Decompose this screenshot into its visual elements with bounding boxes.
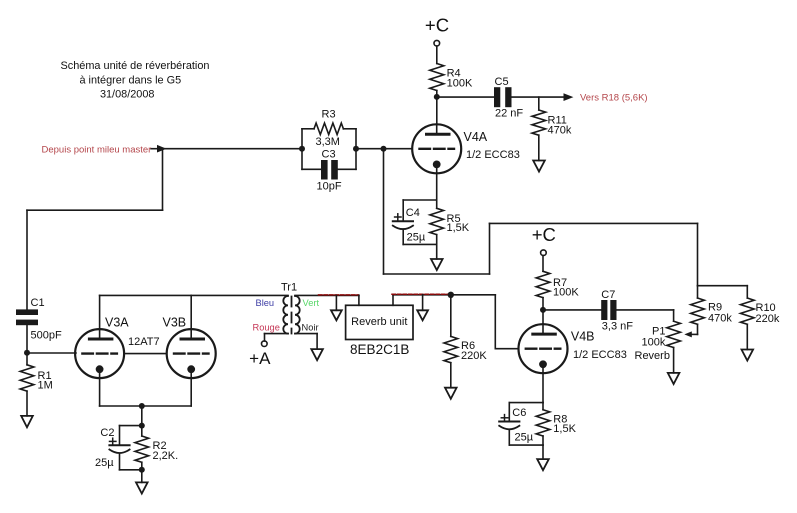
svg-text:100k: 100k — [642, 336, 666, 348]
triode V3B (12AT7) — [163, 315, 216, 378]
svg-text:V4B: V4B — [571, 329, 595, 343]
potentiometer P1 100k Reverb — [635, 321, 698, 373]
svg-text:V3A: V3A — [105, 315, 129, 329]
wire cathode network to ground — [436, 244, 438, 259]
node V4A grid / feedback tap — [381, 146, 387, 152]
svg-text:V3B: V3B — [163, 315, 187, 329]
wire plate node to C5 — [437, 96, 494, 98]
wire to ground — [141, 470, 143, 483]
svg-text:8EB2C1B: 8EB2C1B — [350, 342, 409, 357]
triode V4B 1/2 ECC83 — [519, 324, 627, 373]
resistor R8 1,5K — [536, 403, 576, 446]
wire primary bottom to +A terminal — [265, 333, 289, 335]
wire feedback down to divider — [697, 223, 699, 285]
svg-text:1,5K: 1,5K — [447, 222, 470, 234]
svg-text:25µ: 25µ — [515, 432, 534, 444]
wire down to C1 — [26, 210, 28, 309]
wire left horizontal to C1 column — [27, 209, 163, 211]
wire feedback bottom horizontal — [384, 273, 490, 275]
wire to V3A grid — [27, 352, 76, 354]
svg-text:Reverb: Reverb — [635, 350, 670, 362]
resistor R9 470k — [691, 286, 733, 335]
svg-text:2,2K.: 2,2K. — [153, 450, 179, 462]
svg-text:3,3 nF: 3,3 nF — [602, 321, 633, 333]
wire reverb output cable — [393, 294, 451, 296]
wire shield stub left — [335, 295, 337, 310]
wire junction to V4B grid — [451, 294, 496, 296]
ground below R5/C4 — [431, 259, 443, 270]
wire red dashed input cable — [319, 294, 359, 296]
capacitor C3 10pF — [302, 149, 356, 193]
node reverb output junction — [448, 292, 454, 298]
ground below P1 — [668, 373, 680, 384]
ground shield left — [331, 310, 342, 320]
svg-text:Tr1: Tr1 — [281, 281, 297, 293]
svg-text:Vers R18 (5,6K): Vers R18 (5,6K) — [580, 93, 648, 104]
svg-text:22 nF: 22 nF — [495, 108, 523, 120]
svg-text:Rouge: Rouge — [253, 322, 280, 332]
title block — [61, 60, 210, 101]
resistor R11 470k — [532, 97, 572, 160]
ground below R11 — [533, 161, 545, 172]
wire cathode rail — [100, 405, 192, 407]
svg-text:100K: 100K — [553, 287, 579, 299]
wire C7 to P1 — [617, 309, 674, 311]
reverb tank box 8EB2C1B — [346, 295, 413, 357]
power +C supply (V4A) — [425, 14, 449, 46]
wire feedback up — [489, 223, 491, 274]
wire divider rail — [698, 285, 748, 287]
wire V4B plate lead — [542, 310, 544, 324]
wire V3B plate lead up — [190, 295, 192, 329]
svg-text:25µ: 25µ — [407, 231, 426, 243]
svg-text:Reverb unit: Reverb unit — [351, 316, 407, 328]
wire feedback top horizontal — [490, 222, 698, 224]
resistor R2 2,2K — [135, 426, 178, 470]
ground below R6 — [445, 388, 457, 399]
svg-text:C1: C1 — [31, 297, 45, 309]
svg-text:Depuis point mileu master: Depuis point mileu master — [42, 144, 152, 155]
node V4B plate — [540, 307, 546, 313]
svg-text:3,3M: 3,3M — [316, 136, 340, 148]
wire shield stub right — [422, 295, 424, 311]
resistor R6 220K — [444, 295, 487, 388]
wire V4A cathode lead — [436, 173, 438, 200]
wire V3A plate lead up — [99, 295, 101, 329]
wire input to R3/C3 left node — [163, 148, 302, 150]
node R3 right — [353, 146, 359, 152]
svg-text:+C: +C — [532, 224, 556, 245]
svg-text:Noir: Noir — [302, 322, 319, 332]
resistor R10 220k — [741, 286, 780, 350]
wire plate to C7 — [543, 309, 601, 311]
capacitor C4 25u electrolytic — [393, 200, 437, 244]
svg-text:100K: 100K — [447, 78, 473, 90]
svg-text:500pF: 500pF — [31, 329, 62, 341]
wire grid link V3A-V3B — [124, 353, 167, 355]
svg-text:12AT7: 12AT7 — [128, 336, 160, 348]
capacitor C5 22nF — [494, 76, 523, 120]
svg-text:Schéma unité de réverbération: Schéma unité de réverbération — [61, 60, 210, 72]
resistor R4 100K — [430, 46, 473, 97]
svg-text:C3: C3 — [322, 149, 336, 161]
svg-text:10pF: 10pF — [317, 180, 342, 192]
svg-text:R3: R3 — [322, 108, 336, 120]
wire V4A plate lead — [436, 97, 438, 124]
svg-text:31/08/2008: 31/08/2008 — [100, 89, 155, 101]
wire to ground — [542, 445, 544, 459]
node input arrow (Depuis point mileu master) — [42, 144, 167, 155]
svg-text:470k: 470k — [548, 124, 572, 136]
node cathode rail center — [139, 403, 145, 409]
capacitor C6 25u electrolytic — [499, 403, 543, 446]
svg-text:220K: 220K — [461, 350, 487, 362]
wire red dashed output cable — [392, 293, 450, 295]
wire V4B cathode lead — [542, 373, 544, 402]
wire input junction down — [162, 149, 164, 211]
ground secondary (Noir) — [311, 349, 323, 360]
wire C1 to grid node — [26, 325, 28, 353]
wire down to bias network — [141, 406, 143, 426]
svg-text:220k: 220k — [756, 313, 780, 325]
wire plate rail to transformer — [100, 294, 288, 296]
wire secondary bottom — [295, 333, 317, 335]
triode V3A (12AT7) — [75, 315, 129, 378]
svg-text:C4: C4 — [406, 207, 420, 219]
svg-text:C7: C7 — [601, 289, 615, 301]
node +A terminal — [249, 341, 271, 368]
resistor R1 1M — [20, 353, 53, 416]
svg-text:Bleu: Bleu — [256, 298, 275, 308]
ground below R10 — [742, 350, 754, 361]
ground below R8/C6 — [537, 459, 549, 470]
capacitor C1 500pF — [16, 297, 62, 341]
wire feedback down from grid node — [383, 149, 385, 274]
svg-text:470k: 470k — [708, 312, 732, 324]
transformer Tr1 — [253, 281, 320, 333]
svg-text:+C: +C — [425, 14, 449, 35]
svg-text:C6: C6 — [512, 407, 526, 419]
wire V3A cathode lead down — [99, 378, 101, 406]
resistor R3 3,3M — [302, 108, 356, 148]
ground below R1 — [21, 416, 33, 427]
svg-text:à intégrer dans le G5: à intégrer dans le G5 — [79, 74, 181, 86]
svg-text:25µ: 25µ — [95, 457, 114, 469]
node V4A plate — [434, 94, 440, 100]
svg-text:Vert: Vert — [303, 298, 320, 308]
svg-text:1/2 ECC83: 1/2 ECC83 — [573, 349, 627, 361]
power +C supply (V4B) — [532, 224, 556, 256]
node R3 left — [299, 146, 305, 152]
svg-text:+A: +A — [249, 349, 271, 368]
svg-text:V4A: V4A — [464, 130, 488, 144]
resistor R5 1,5K — [430, 200, 470, 244]
op-amp ... triode V4A 1/2 ECC83 — [412, 124, 520, 173]
wire V3B cathode lead down — [190, 378, 192, 406]
svg-text:C5: C5 — [495, 76, 509, 88]
capacitor C7 3,3nF — [601, 289, 633, 332]
node C1/R1/grid junction — [24, 350, 30, 356]
svg-text:1,5K: 1,5K — [553, 423, 576, 435]
ground shield right — [417, 310, 428, 320]
wire secondary top to reverb input — [295, 294, 359, 296]
svg-text:C2: C2 — [100, 427, 114, 439]
resistor R7 100K — [536, 256, 579, 310]
node bias bottom — [139, 467, 145, 473]
node bias top — [139, 423, 145, 429]
ground below R2/C2 — [136, 482, 148, 493]
svg-text:1/2 ECC83: 1/2 ECC83 — [466, 149, 520, 161]
node output arrow Vers R18 — [564, 93, 648, 104]
wire R3 to V4A grid — [356, 148, 412, 150]
svg-text:1M: 1M — [38, 379, 53, 391]
wire C5 to output arrow — [512, 96, 565, 98]
capacitor C2 25u electrolytic — [95, 426, 142, 470]
